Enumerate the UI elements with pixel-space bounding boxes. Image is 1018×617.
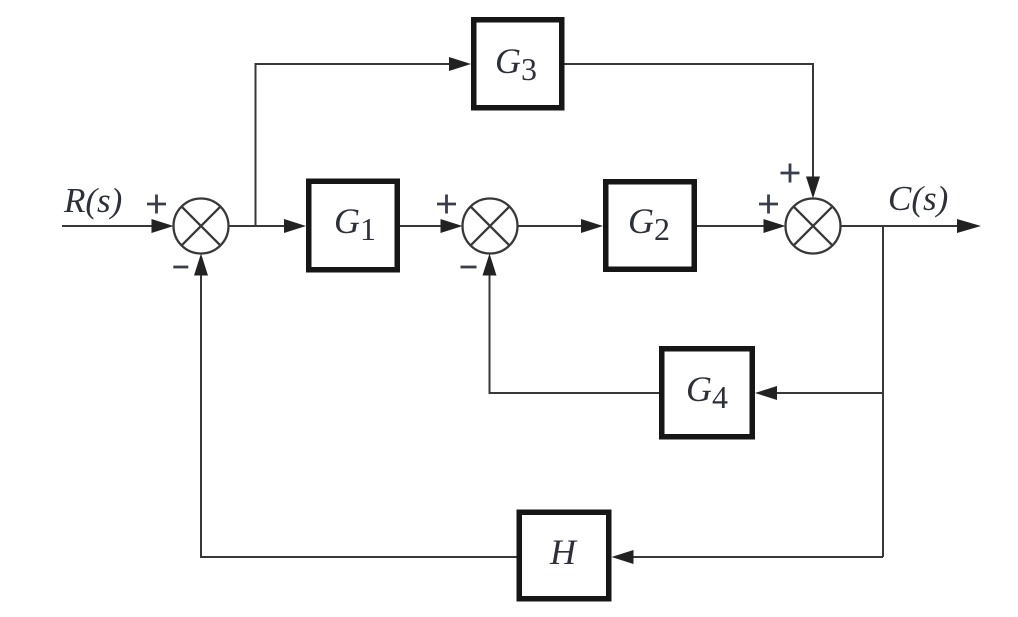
wire output branch down [882,226,884,557]
minus sign at S2 bottom [461,266,477,269]
wire S3 to output C(s) [841,225,960,227]
wire G3 to S3 top [565,64,814,181]
wire S2 to G2 [518,225,586,227]
wire G4 to S2 bottom [490,271,660,393]
arrowhead into G3 [449,57,471,71]
wire H feedback from branch [629,556,883,558]
wire branch up to G3 [256,64,454,226]
plus sign at S3 input [759,195,778,214]
plus sign at S2 input [437,195,456,214]
arrowhead into summer S1 [152,219,174,233]
summing junction S2 [463,199,518,254]
wire H to S1 bottom [201,271,517,557]
wire G2 to S3 [697,225,767,227]
minus sign at S1 bottom [173,266,188,269]
wire G1 to S2 [400,225,444,227]
arrowhead into S1 bottom [194,254,208,276]
arrowhead into H right side [612,550,634,564]
block G4 [662,349,753,437]
summing junction S1 [174,199,229,254]
wire R(s) input [62,225,155,227]
block H [519,512,609,599]
block G1 [309,181,398,270]
wire S1 to G1 [229,225,289,227]
output arrowhead [957,219,981,233]
arrowhead into G1 [284,219,306,233]
block G3 [474,20,562,108]
plus sign at S1 input [147,195,166,214]
arrowhead into S2 [441,219,463,233]
arrowhead into S3 [764,219,786,233]
svg-text:H: H [549,532,578,572]
svg-text:C(s): C(s) [888,179,948,218]
arrowhead into G2 [581,219,603,233]
wire G4 feedback from branch [773,392,883,394]
arrowhead into G4 right side [755,386,777,400]
arrowhead into S2 bottom [483,254,497,276]
arrowhead into S3 top [806,177,820,199]
svg-text:R(s): R(s) [63,181,122,220]
block G2 [606,182,695,270]
summing junction S3 [786,199,841,254]
plus sign at S3 top [781,164,800,183]
